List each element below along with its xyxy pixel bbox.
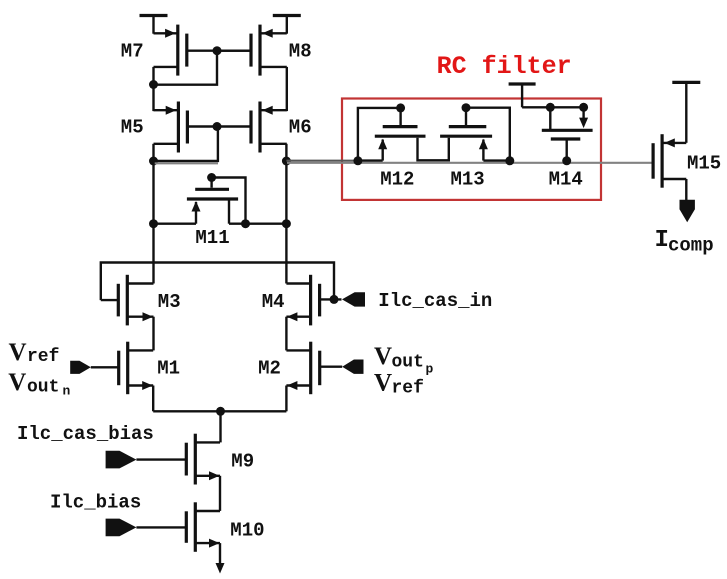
wire M4 source to M2 drain	[285, 317, 287, 351]
wire M6 drain down	[285, 144, 287, 161]
node left rail / M11 junction	[149, 219, 158, 228]
svg-text:M14: M14	[549, 169, 583, 191]
transistor M7	[154, 25, 187, 76]
transistor M3	[118, 275, 153, 326]
node tail junction	[216, 407, 225, 416]
transistor M11 (horizontal, diode-connected)	[187, 180, 238, 224]
wire left rail M11 level to M3 drain	[152, 224, 154, 284]
wire M2 gate lead	[319, 366, 342, 368]
port Ilc_cas_in (input flag)	[342, 292, 365, 306]
svg-text:M13: M13	[451, 169, 485, 191]
svg-text:M6: M6	[289, 117, 312, 139]
wire M5 gate to node	[187, 125, 217, 127]
transistor M15	[653, 134, 686, 188]
transistor M10	[186, 502, 220, 552]
svg-text:M5: M5	[121, 117, 144, 139]
node M4 gate / Ilc_cas_in junction	[330, 295, 339, 304]
wire M5 drain down	[152, 144, 154, 161]
transistor M8	[251, 25, 287, 76]
power VDD symbol for M15	[672, 82, 700, 142]
node M13 source/gate junction	[505, 156, 514, 165]
transistor M6	[251, 102, 287, 153]
svg-text:p: p	[426, 362, 434, 377]
svg-text:ref: ref	[27, 347, 59, 367]
wire gate rail M5-M6	[217, 125, 252, 127]
svg-text:Ilc_bias: Ilc_bias	[50, 492, 141, 514]
wire M12 drain / link / M13 drain (U)	[418, 138, 449, 161]
svg-text:Ilc_cas_bias: Ilc_cas_bias	[17, 423, 154, 445]
transistor M14 (MOS capacitor)	[522, 107, 593, 161]
node M5/M6 gate junction	[213, 122, 222, 131]
svg-text:I: I	[655, 227, 669, 254]
port Ilc_cas_bias input flag	[106, 451, 137, 469]
wire M4 gate lead to node	[319, 298, 341, 300]
wire M9 source to M10 drain	[219, 476, 221, 511]
svg-text:M2: M2	[258, 358, 281, 380]
wire tail to M9 drain	[219, 411, 221, 442]
svg-text:M3: M3	[158, 291, 181, 313]
svg-text:M15: M15	[687, 153, 721, 175]
svg-text:out: out	[27, 378, 59, 398]
node M14 source junction	[579, 103, 588, 112]
node M11 drain junction	[241, 219, 250, 228]
svg-text:RC filter: RC filter	[437, 52, 572, 81]
wire M1 source down to tail	[152, 386, 154, 412]
node M7/M8 gate junction	[213, 46, 222, 55]
node M7 drain junction	[149, 80, 158, 89]
wire right rail M11 level to M4 drain	[285, 224, 287, 284]
wire M11 source to left rail	[154, 222, 197, 224]
node M12 gate junction	[396, 103, 405, 112]
transistor M2	[286, 342, 319, 395]
current arrow at M10 source (to ground)	[216, 563, 225, 574]
svg-text:comp: comp	[668, 235, 714, 257]
svg-text:M1: M1	[157, 358, 180, 380]
wire M7 drain down	[152, 67, 154, 85]
wire gate rail M7-M8	[217, 50, 251, 52]
transistor M13 (horizontal)	[440, 108, 510, 161]
wire main output net (gray underlay)	[287, 162, 652, 164]
wire M7 diode connection drain to gate	[154, 51, 218, 85]
node M13 gate junction	[462, 103, 471, 112]
node M14 drain junction	[546, 103, 555, 112]
wire M9 gate lead	[136, 458, 186, 460]
wire M15 drain down	[685, 179, 687, 201]
svg-text:n: n	[63, 384, 71, 399]
svg-text:V: V	[374, 370, 392, 397]
wire M2 source down to tail	[285, 386, 287, 412]
RC filter enclosure (red box)	[342, 99, 601, 200]
wire M1 gate lead	[91, 366, 119, 368]
wire M6 drain node to M12 node	[286, 160, 358, 162]
svg-text:M7: M7	[121, 41, 144, 63]
power VDD symbol for M7	[140, 16, 168, 34]
wire cascode gate rail (M3/M4 gates)	[101, 263, 334, 301]
svg-text:out: out	[392, 353, 424, 373]
wire right rail M6 drain to M11 level	[285, 161, 287, 224]
port I_comp output flag	[680, 200, 695, 222]
wire M11 drain to right rail	[229, 222, 286, 224]
wire M7 drain to M5 source	[152, 85, 154, 112]
transistor M9	[186, 434, 220, 485]
wire M12 gate loop	[358, 108, 401, 161]
node M6 drain junction (output node)	[282, 157, 291, 166]
svg-text:M9: M9	[231, 451, 254, 473]
svg-text:M10: M10	[230, 520, 264, 542]
node M5 drain junction	[149, 157, 158, 166]
svg-text:M8: M8	[289, 41, 312, 63]
port V_ref/V_outn input flag at M1 gate	[70, 361, 91, 374]
wire M8 drain down to M6 source	[286, 67, 288, 111]
wire M10 source down	[219, 543, 221, 564]
svg-text:Ilc_cas_in: Ilc_cas_in	[378, 290, 492, 312]
transistor M12 (horizontal)	[358, 108, 426, 161]
svg-text:M11: M11	[195, 227, 229, 249]
wire M5 diode connection drain to gate	[154, 127, 218, 161]
node M11 gate junction	[207, 173, 216, 182]
port V_outp/V_ref input flag at M2 gate	[342, 360, 363, 374]
node M12 source/gate junction	[353, 156, 362, 165]
wire M13 gate loop	[466, 108, 510, 161]
wire M8 gate lead	[217, 50, 251, 52]
wire M3 gate lead	[101, 299, 119, 301]
wire left rail M5 drain to M11 level	[152, 161, 154, 224]
wire M5 diode connection drain to gate (gray underlay)	[154, 162, 218, 164]
transistor M4	[286, 275, 319, 326]
svg-text:V: V	[9, 339, 27, 366]
svg-text:V: V	[8, 369, 26, 396]
node right rail / M11 junction	[282, 219, 291, 228]
wire M7 gate to node	[187, 50, 217, 52]
port Ilc_bias input flag	[106, 519, 137, 537]
transistor M5	[154, 102, 188, 153]
wire tail rail	[153, 410, 286, 412]
power VDD symbol for M8	[273, 16, 301, 34]
svg-text:V: V	[374, 343, 392, 370]
transistor M1	[119, 342, 154, 395]
svg-text:M4: M4	[262, 291, 285, 313]
node M14 gate junction on net	[562, 156, 571, 165]
power VDD symbol for M14	[509, 84, 536, 107]
svg-text:M12: M12	[380, 169, 414, 191]
wire M3 source to M1 drain	[152, 317, 154, 351]
wire M11 gate to drain (diode connection)	[212, 178, 246, 224]
wire M10 gate lead	[136, 526, 186, 528]
svg-text:ref: ref	[392, 379, 424, 399]
